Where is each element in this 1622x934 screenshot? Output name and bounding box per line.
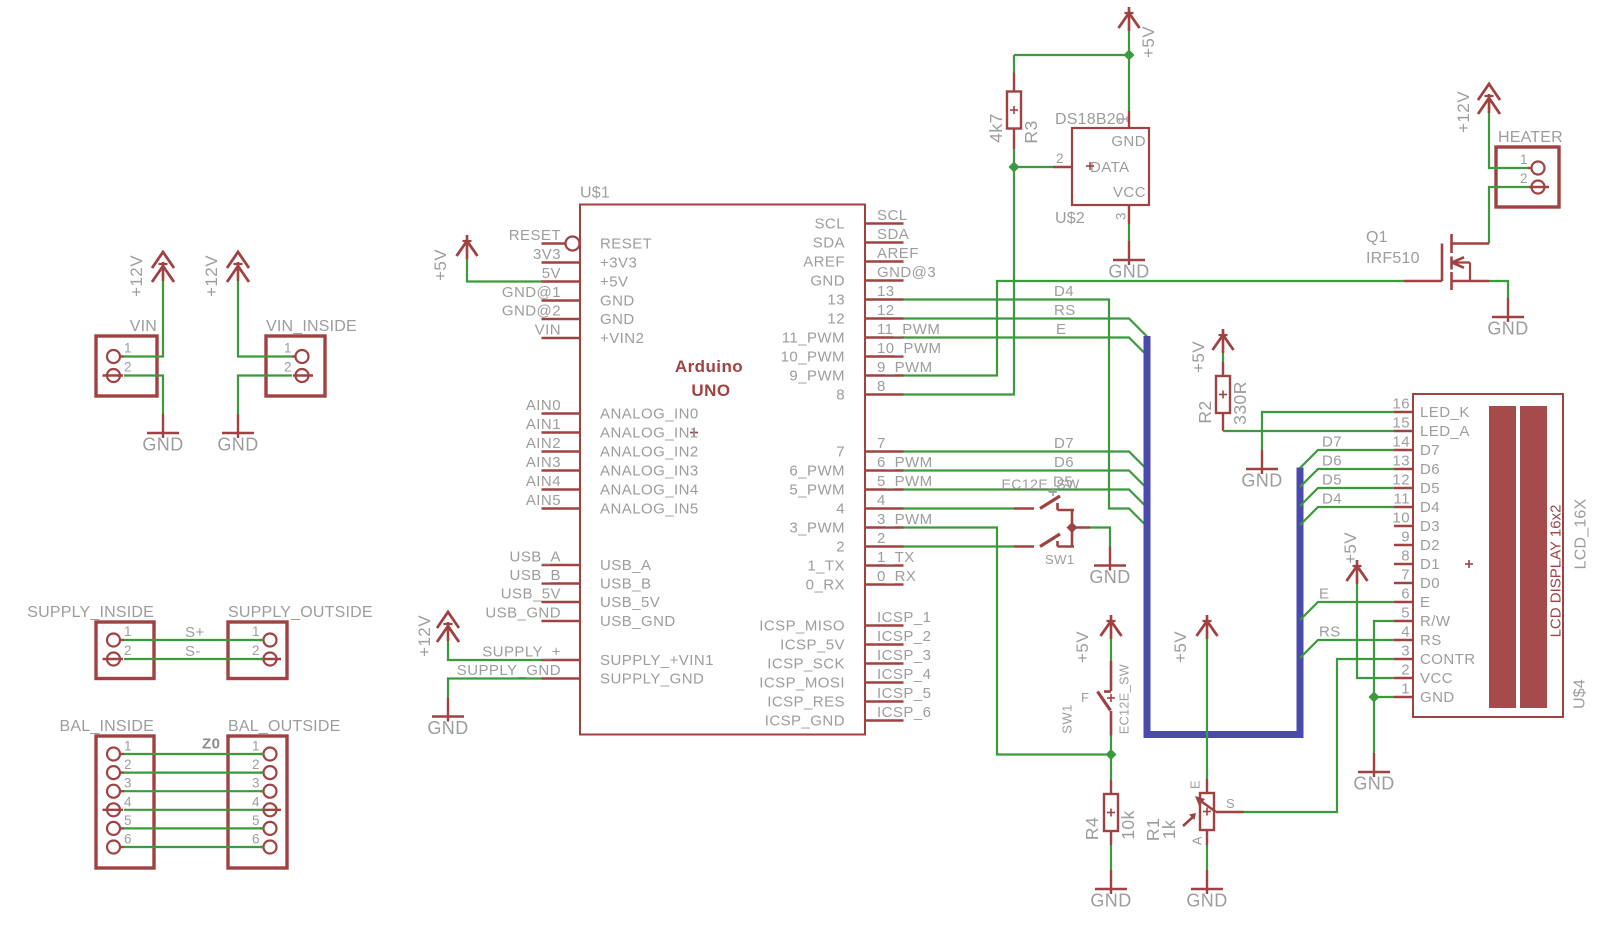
ground (VIN) [142,414,183,455]
wire encoder common stub [1072,526,1090,529]
svg-text:U$1: U$1 [580,185,610,202]
wire bus net Z0 (6 lines) [124,754,264,847]
wire bus exit E to LCD pin6 [1300,602,1394,620]
label D5 (LCD) [1322,472,1342,489]
svg-text:12: 12 [877,302,895,319]
svg-text:2: 2 [284,360,292,375]
svg-text:GND: GND [600,293,635,310]
svg-text:GND: GND [142,435,183,455]
wire net LED_A (R2 to LCD pin15) [1223,430,1394,432]
svg-text:6: 6 [252,832,260,847]
wire R3 top [1013,55,1015,73]
svg-text:Arduino: Arduino [675,357,743,376]
svg-text:+12V: +12V [415,615,434,657]
svg-text:6_PWM: 6_PWM [789,463,845,480]
wire bus exit D7 to LCD pin14 [1300,450,1394,468]
svg-text:USB_5V: USB_5V [501,586,561,603]
svg-text:SDA: SDA [877,226,909,243]
svg-text:ANALOG_IN2: ANALOG_IN2 [600,444,699,461]
svg-text:+5V: +5V [1139,26,1158,58]
svg-text:4: 4 [252,794,260,809]
svg-text:+5V: +5V [600,274,628,291]
label E [1056,321,1066,338]
svg-text:9: 9 [1401,529,1410,546]
label D5 [1053,474,1073,491]
svg-text:HEATER: HEATER [1498,129,1563,146]
label RS (LCD) [1319,624,1341,641]
svg-text:R2: R2 [1195,400,1215,423]
svg-text:IRF510: IRF510 [1366,250,1420,267]
svg-text:6_PWM: 6_PWM [877,454,933,471]
svg-text:1: 1 [252,739,260,754]
svg-text:SUPPLY_GND: SUPPLY_GND [600,671,704,688]
svg-text:BAL_INSIDE: BAL_INSIDE [60,718,154,735]
connector BAL_OUTSIDE [228,718,340,868]
wire +12V to SUPPLY_+VIN1 [448,641,542,660]
IC U$1 Arduino UNO [580,185,865,735]
svg-text:ICSP_6: ICSP_6 [877,704,931,721]
svg-text:USB_5V: USB_5V [600,594,660,611]
svg-text:6: 6 [1401,586,1410,603]
svg-text:ICSP_2: ICSP_2 [877,628,931,645]
wire R1 to ground [1206,845,1208,870]
pins U1 left side [457,227,714,688]
svg-text:+5V: +5V [1073,631,1092,663]
svg-text:SW1: SW1 [1060,704,1075,734]
svg-text:E: E [1188,780,1203,789]
svg-text:8: 8 [836,387,845,404]
svg-text:UNO: UNO [691,381,730,400]
svg-text:ANALOG_IN5: ANALOG_IN5 [600,501,699,518]
svg-text:ICSP_4: ICSP_4 [877,666,931,683]
svg-text:D7: D7 [1054,435,1074,452]
svg-text:D6: D6 [1322,453,1342,470]
svg-text:5: 5 [124,813,132,828]
svg-text:330R: 330R [1230,381,1250,425]
svg-text:GND: GND [427,718,468,738]
svg-text:10k: 10k [1118,810,1138,840]
svg-text:14: 14 [1392,434,1410,451]
svg-text:A: A [1190,836,1205,845]
label D6 [1054,454,1074,471]
wire VIN_INSIDE pin2 to ground [238,376,292,415]
display U$4 LCD_16X [1392,394,1589,717]
svg-text:D6: D6 [1420,461,1440,478]
svg-text:S: S [1226,796,1235,811]
svg-text:AIN0: AIN0 [526,397,561,414]
wire net to encoder contact A (pin 4) [904,507,1015,509]
svg-text:11_PWM: 11_PWM [877,321,940,338]
connector VIN [96,318,157,396]
wire push switch to node [1110,736,1112,755]
svg-text:U$2: U$2 [1055,210,1085,227]
svg-text:VCC: VCC [1420,670,1453,687]
wire net D6 (pin 6_PWM) [904,471,1148,489]
wire net E (pin 11_PWM) [904,338,1148,356]
wire DATA node down to U1 pin8 [904,167,1015,395]
label EC12E_SW (encoder) [1002,476,1081,496]
svg-text:1: 1 [124,624,132,639]
connector SUPPLY_OUTSIDE [228,604,373,679]
svg-text:AIN3: AIN3 [526,454,561,471]
svg-text:VCC: VCC [1113,184,1146,201]
svg-text:USB_B: USB_B [510,567,561,584]
svg-text:EC12E_SW: EC12E_SW [1118,664,1132,734]
supply +5V (DS18B20) [1119,7,1159,58]
supply +12V (VIN_INSIDE) [202,252,249,297]
label D4 (LCD) [1322,491,1342,508]
svg-text:2: 2 [252,643,260,658]
svg-text:5V: 5V [542,265,561,282]
wire HEATER pin2 to Q1 drain [1489,187,1529,244]
svg-text:SUPPLY_+: SUPPLY_+ [482,644,561,661]
junction encoder common [1067,522,1078,533]
svg-text:GND: GND [1420,689,1455,706]
svg-text:3V3: 3V3 [533,246,561,263]
svg-text:7: 7 [877,435,886,452]
ground (LED_K) [1241,450,1282,491]
svg-text:D6: D6 [1054,454,1074,471]
svg-text:+12V: +12V [202,255,221,297]
connector HEATER [1496,129,1563,207]
svg-text:D4: D4 [1322,491,1342,508]
junction LCD ground node [1369,692,1380,703]
svg-text:+VIN2: +VIN2 [600,330,644,347]
wire net D5 (pin 5_PWM) [904,490,1148,508]
svg-text:ANALOG_IN0: ANALOG_IN0 [600,406,699,423]
label D7 (LCD) [1322,434,1342,451]
wire net 9_PWM to Q1 gate [904,281,1405,376]
svg-text:GND: GND [1108,262,1149,282]
svg-text:ICSP_RES: ICSP_RES [767,694,845,711]
svg-text:D4: D4 [1420,499,1440,516]
wire LCD R/W pin5 to ground net [1374,621,1394,697]
svg-text:AIN5: AIN5 [526,492,561,509]
wire bus exit RS to LCD pin4 [1300,640,1394,658]
svg-text:LED_K: LED_K [1420,404,1470,421]
junction +5V/R3 [1124,50,1135,61]
svg-text:+12V: +12V [1454,91,1473,133]
ground (R4) [1090,870,1131,911]
wire bus exit D6 to LCD pin13 [1300,469,1394,487]
svg-text:ICSP_SCK: ICSP_SCK [767,656,845,673]
svg-text:7: 7 [1401,567,1410,584]
svg-text:AIN4: AIN4 [526,473,561,490]
wire DS18B20 pin3 to ground [1128,224,1130,241]
svg-text:1: 1 [252,624,260,639]
wire +5V branch to R3 [1014,54,1129,56]
svg-text:10_PWM: 10_PWM [877,340,941,357]
svg-text:8: 8 [877,378,886,395]
svg-text:7: 7 [836,444,845,461]
label D4 [1054,283,1074,300]
svg-text:ICSP_5V: ICSP_5V [780,637,845,654]
svg-text:3: 3 [1401,643,1410,660]
svg-text:BAL_OUTSIDE: BAL_OUTSIDE [228,718,340,735]
svg-text:SCL: SCL [814,216,845,233]
wire +5V vertical to DS18B20 pin1 [1128,31,1130,111]
svg-text:E: E [1319,586,1329,603]
switch SW1 encoder contact B [1014,528,1074,547]
svg-text:GND@2: GND@2 [502,303,561,320]
wire +5V to R2 [1222,353,1224,362]
wire +5V to push switch [1110,639,1112,661]
wire +12V to HEATER pin1 [1489,113,1528,168]
svg-text:+5V: +5V [1189,341,1208,373]
svg-text:EC12E_SW: EC12E_SW [1002,476,1081,492]
svg-text:1: 1 [1520,152,1528,167]
svg-text:4: 4 [877,492,886,509]
svg-text:E: E [1420,594,1430,611]
svg-text:DATA: DATA [1090,159,1130,176]
svg-text:GND: GND [217,435,258,455]
svg-text:+5V: +5V [1341,532,1360,564]
wire +5V to LCD VCC pin2 [1357,584,1394,678]
svg-text:SUPPLY_GND: SUPPLY_GND [457,662,561,679]
svg-text:GND: GND [600,311,635,328]
ground (R1) [1186,870,1227,911]
svg-text:D7: D7 [1420,442,1440,459]
wire encoder common to ground [1090,528,1110,547]
svg-text:D5: D5 [1420,480,1440,497]
svg-text:ICSP_MOSI: ICSP_MOSI [759,675,845,692]
label RS [1054,302,1076,319]
supply +12V (HEATER) [1454,84,1500,133]
svg-text:RS: RS [1319,624,1341,641]
ground (DS18B20) [1108,241,1149,282]
wire LCD ground node down [1373,697,1375,753]
svg-text:GND: GND [1241,471,1282,491]
wire LCD GND pin1 [1374,696,1394,698]
supply +5V (U1) [431,235,478,281]
svg-text:16: 16 [1392,396,1410,413]
connector SUPPLY_INSIDE [27,604,154,679]
svg-text:3_PWM: 3_PWM [789,520,845,537]
svg-text:9_PWM: 9_PWM [789,368,845,385]
svg-text:12: 12 [827,311,845,328]
svg-text:VIN_INSIDE: VIN_INSIDE [266,318,357,335]
svg-text:12: 12 [1392,472,1410,489]
svg-text:VIN: VIN [535,322,561,339]
svg-text:3: 3 [252,776,260,791]
svg-text:ICSP_1: ICSP_1 [877,609,931,626]
svg-text:4: 4 [124,794,132,809]
wire Q1 gate lead [1404,280,1442,282]
svg-text:2: 2 [877,530,886,547]
svg-text:GND@3: GND@3 [877,264,936,281]
wire net S+ [124,639,264,641]
svg-text:0_RX: 0_RX [877,568,916,585]
svg-text:2: 2 [252,757,260,772]
svg-text:RS: RS [1420,632,1442,649]
wire +5V to U1 5V pin [467,259,542,282]
svg-text:E: E [1056,321,1066,338]
wire R4 to ground [1110,845,1112,870]
ground (VIN_INSIDE) [217,414,258,455]
junction push switch node [1106,749,1117,760]
svg-text:AREF: AREF [803,254,845,271]
svg-text:10: 10 [1392,510,1410,527]
svg-text:1_TX: 1_TX [807,558,845,575]
supply +12V (U1 supply) [415,612,459,657]
svg-text:9_PWM: 9_PWM [877,359,933,376]
wire bus exit D4 to LCD pin11 [1300,507,1394,525]
svg-text:GND: GND [1487,319,1528,339]
wire SUPPLY_GND to ground [448,679,542,698]
svg-text:5: 5 [252,813,260,828]
svg-text:2: 2 [124,757,132,772]
svg-text:RESET: RESET [600,236,652,253]
label D7 [1054,435,1074,452]
svg-text:F: F [1081,690,1089,705]
svg-text:D0: D0 [1420,575,1440,592]
resistor R3 4k7 [986,73,1041,150]
potentiometer R1 1k [1143,779,1244,845]
svg-text:SUPPLY_+VIN1: SUPPLY_+VIN1 [600,652,714,669]
wire net 3_PWM to node [904,528,1112,755]
svg-text:13: 13 [1392,453,1410,470]
wire +5V to R1 [1206,639,1208,779]
label Z0 [202,736,220,753]
svg-text:2: 2 [836,539,845,556]
svg-text:+5V: +5V [1171,631,1190,663]
wire net S- [124,658,264,660]
svg-text:R4: R4 [1082,817,1102,840]
switch SW1 push button EC12E_SW [1060,661,1132,736]
svg-text:R3: R3 [1021,120,1041,143]
svg-text:1: 1 [124,341,132,356]
wire node to R4 [1110,755,1112,781]
sensor U$2 DS18B20 [1053,111,1149,227]
svg-text:ICSP_3: ICSP_3 [877,647,931,664]
svg-text:+3V3: +3V3 [600,255,637,272]
svg-text:5_PWM: 5_PWM [877,473,933,490]
wire net D7 (pin 7) [904,452,1148,470]
connector BAL_INSIDE [60,718,154,868]
wire R1 wiper S to CONTR [1244,659,1394,812]
supply +12V (VIN) [127,252,174,297]
resistor R4 10k [1082,780,1138,845]
svg-text:13: 13 [877,283,895,300]
label S+ [185,624,205,641]
ground (Q1) [1487,298,1528,339]
svg-text:CONTR: CONTR [1420,651,1476,668]
svg-text:1: 1 [1401,681,1410,698]
svg-text:4: 4 [836,501,845,518]
label S- [185,643,201,660]
transistor Q1 IRF510 [1366,229,1489,290]
ground (LCD) [1353,753,1394,794]
svg-text:S+: S+ [185,624,205,641]
svg-text:ANALOG_IN4: ANALOG_IN4 [600,482,699,499]
svg-text:LCD DISPLAY 16x2: LCD DISPLAY 16x2 [1548,505,1565,638]
svg-text:USB_B: USB_B [600,576,651,593]
wire net RS (pin 12) [904,319,1148,337]
ground (U1 supply) [427,698,468,739]
supply +5V (R1) [1171,615,1218,663]
wire VIN_INSIDE pin1 to +12V [238,281,292,357]
svg-text:GND: GND [1111,133,1146,150]
svg-text:AIN2: AIN2 [526,435,561,452]
svg-text:GND: GND [1089,567,1130,587]
svg-text:VIN: VIN [130,318,157,335]
svg-text:SW1: SW1 [1045,552,1075,567]
svg-text:U$4: U$4 [1572,679,1589,709]
svg-text:SCL: SCL [877,207,908,224]
svg-text:1: 1 [284,341,292,356]
svg-text:11_PWM: 11_PWM [782,330,845,347]
svg-text:ICSP_GND: ICSP_GND [765,713,845,730]
svg-text:USB_GND: USB_GND [600,613,676,630]
svg-text:USB_A: USB_A [600,557,651,574]
svg-text:1: 1 [124,739,132,754]
svg-text:AREF: AREF [877,245,919,262]
wire DATA node to DS18B20 pin2 [1014,166,1053,168]
svg-text:GND: GND [1090,891,1131,911]
label SW1 (encoder) [1045,552,1075,567]
svg-text:2: 2 [1520,171,1528,186]
svg-text:4k7: 4k7 [986,113,1006,143]
svg-text:2: 2 [1401,662,1410,679]
connector VIN_INSIDE [266,318,357,396]
svg-text:SUPPLY_INSIDE: SUPPLY_INSIDE [27,604,154,621]
svg-text:5: 5 [1401,605,1410,622]
svg-text:GND@1: GND@1 [502,284,561,301]
svg-text:1_TX: 1_TX [877,549,915,566]
svg-text:ICSP_5: ICSP_5 [877,685,931,702]
ground (encoder) [1089,547,1130,588]
svg-text:GND: GND [810,273,845,290]
svg-text:D1: D1 [1420,556,1440,573]
pins U1 right side [759,207,941,730]
bus Z0 [1147,336,1300,735]
wire VIN pin2 to ground [124,376,163,415]
svg-text:10_PWM: 10_PWM [781,349,845,366]
svg-text:+5V: +5V [431,249,450,281]
svg-text:USB_A: USB_A [510,549,561,566]
svg-text:SUPPLY_OUTSIDE: SUPPLY_OUTSIDE [228,604,373,621]
supply +5V (R2) [1189,329,1234,373]
svg-text:R/W: R/W [1420,613,1451,630]
wire VIN pin1 to +12V [124,281,163,357]
svg-text:8: 8 [1401,548,1410,565]
wire R3 bottom to DATA node [1013,149,1015,167]
svg-text:2: 2 [1056,151,1064,166]
svg-text:3_PWM: 3_PWM [877,511,933,528]
svg-text:DS18B20: DS18B20 [1055,111,1125,128]
svg-text:D2: D2 [1420,537,1440,554]
svg-text:6: 6 [124,832,132,847]
svg-text:2: 2 [124,360,132,375]
svg-text:3: 3 [1114,212,1129,220]
label E (LCD) [1319,586,1329,603]
svg-text:LCD_16X: LCD_16X [1573,498,1590,569]
svg-text:+12V: +12V [127,255,146,297]
svg-text:S-: S- [185,643,201,660]
svg-text:D5: D5 [1322,472,1342,489]
svg-text:AIN1: AIN1 [526,416,561,433]
supply +5V (push switch) [1073,615,1122,663]
label D6 (LCD) [1322,453,1342,470]
svg-text:4: 4 [1401,624,1410,641]
svg-text:11: 11 [1394,491,1410,508]
svg-text:5_PWM: 5_PWM [789,482,845,499]
svg-text:ANALOG_IN1: ANALOG_IN1 [600,425,699,442]
svg-text:GND: GND [1353,774,1394,794]
resistor R2 330R [1195,362,1250,431]
svg-text:LED_A: LED_A [1420,423,1470,440]
wire net LED_K (LCD pin16 to ground) [1262,412,1394,450]
